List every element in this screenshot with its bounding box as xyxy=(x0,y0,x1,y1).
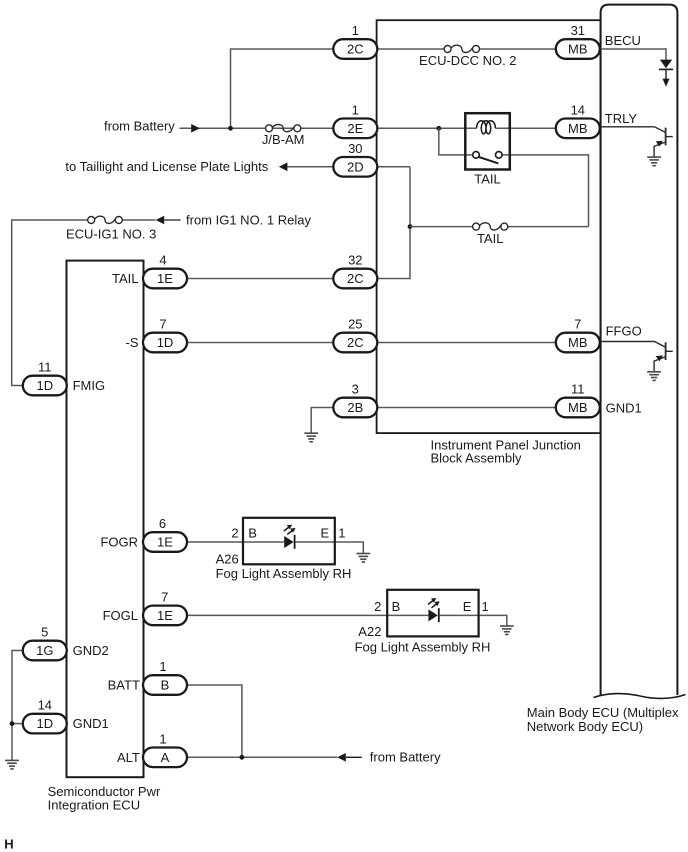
wire GND2 rail xyxy=(12,651,23,761)
svg-text:-S: -S xyxy=(126,335,139,350)
wire TAIL fuse row xyxy=(410,226,473,228)
svg-text:3: 3 xyxy=(352,382,359,397)
ground A22 ground xyxy=(500,626,514,635)
connector 2C pin 32 xyxy=(333,253,377,289)
svg-text:2: 2 xyxy=(374,599,381,614)
connector 1E pin 7 FOGL xyxy=(143,589,187,625)
Instrument Panel Junction Block Assembly box xyxy=(377,20,601,433)
svg-text:7: 7 xyxy=(159,317,166,332)
svg-text:H: H xyxy=(4,836,13,851)
wire 2B to MB11 xyxy=(377,407,556,409)
connector 2B pin 3 xyxy=(333,382,377,418)
svg-text:TRLY: TRLY xyxy=(605,111,638,126)
fuse TAIL xyxy=(473,223,508,230)
junction tail fuse branch xyxy=(408,224,413,229)
svg-text:B: B xyxy=(392,599,401,614)
svg-text:E: E xyxy=(321,525,330,540)
svg-text:FOGL: FOGL xyxy=(103,608,138,623)
svg-text:1: 1 xyxy=(482,599,489,614)
connector 1E pin 6 FOGR xyxy=(143,516,187,552)
svg-text:2D: 2D xyxy=(347,159,364,174)
svg-text:E: E xyxy=(463,599,472,614)
wire 2C25 to MB7 xyxy=(377,342,556,344)
relay coil xyxy=(477,121,496,134)
arrow from IG1 relay xyxy=(156,216,181,225)
fuse J/B-AM xyxy=(266,125,301,132)
ground ECU main ground xyxy=(5,760,19,769)
svg-text:1: 1 xyxy=(159,659,166,674)
connector 1G pin 5 GND2 xyxy=(23,625,67,661)
connector MB pin 14 xyxy=(556,102,600,138)
svg-text:FFGO: FFGO xyxy=(606,323,642,338)
svg-text:2C: 2C xyxy=(347,335,364,350)
svg-text:11: 11 xyxy=(571,382,585,397)
connector B pin 1 BATT xyxy=(143,659,187,695)
Main Body ECU box xyxy=(594,5,686,699)
LED A22 fog lamp xyxy=(428,598,440,622)
svg-text:Fog Light Assembly RH: Fog Light Assembly RH xyxy=(216,566,352,581)
diode BECU xyxy=(659,60,673,87)
wire A26 internal left xyxy=(243,541,284,543)
svg-text:to Taillight and License Plate: to Taillight and License Plate Lights xyxy=(65,159,268,174)
svg-text:Integration ECU: Integration ECU xyxy=(48,798,141,813)
connector 2C pin 25 xyxy=(333,317,377,353)
wire FOGR to A26 xyxy=(187,541,243,543)
fog light A22 box xyxy=(387,590,478,637)
svg-text:A26: A26 xyxy=(216,551,239,566)
ground 2B ground xyxy=(304,433,318,442)
svg-text:TAIL: TAIL xyxy=(474,172,501,187)
svg-text:7: 7 xyxy=(574,317,581,332)
svg-text:32: 32 xyxy=(348,253,362,268)
svg-text:ECU-IG1 NO. 3: ECU-IG1 NO. 3 xyxy=(66,226,156,241)
svg-text:B: B xyxy=(248,525,257,540)
svg-text:1: 1 xyxy=(338,525,345,540)
svg-text:from Battery: from Battery xyxy=(104,118,175,133)
wire branch up from battery node xyxy=(231,49,334,128)
svg-text:FOGR: FOGR xyxy=(100,535,138,550)
wire row1 to MB31 xyxy=(480,48,557,50)
connector MB pin 31 xyxy=(556,23,600,59)
svg-text:A22: A22 xyxy=(358,624,381,639)
wire A26 to ground xyxy=(335,542,364,553)
svg-text:FMIG: FMIG xyxy=(73,378,106,393)
svg-text:MB: MB xyxy=(568,121,588,136)
svg-text:TAIL: TAIL xyxy=(477,231,504,246)
svg-text:MB: MB xyxy=(568,400,588,415)
svg-text:1: 1 xyxy=(352,23,359,38)
Semiconductor Pwr Integration ECU box xyxy=(67,261,144,778)
connector 1D pin 7 -S xyxy=(143,317,187,353)
relay switch xyxy=(473,152,502,164)
svg-text:2E: 2E xyxy=(347,121,363,136)
wire relay switch feed xyxy=(439,128,473,155)
connector 2C pin 1 xyxy=(333,23,377,59)
fog light A26 box xyxy=(243,518,335,565)
svg-text:MB: MB xyxy=(568,335,588,350)
svg-text:TAIL: TAIL xyxy=(112,271,139,286)
svg-text:1D: 1D xyxy=(36,716,53,731)
svg-text:30: 30 xyxy=(348,141,362,156)
svg-text:B: B xyxy=(161,678,170,693)
junction relay branch xyxy=(436,126,441,131)
connector MB pin 11 xyxy=(556,382,600,418)
svg-text:2C: 2C xyxy=(347,271,364,286)
wire BATT to ALT junction xyxy=(187,685,242,757)
wire ALT row xyxy=(187,756,337,758)
arrow from Battery bottom xyxy=(337,753,362,762)
svg-text:BATT: BATT xyxy=(108,678,140,693)
svg-text:MB: MB xyxy=(568,42,588,57)
ground A26 ground xyxy=(356,554,370,563)
ground FFGO emitter ground xyxy=(647,372,661,381)
wire -S 1D to 2C25 xyxy=(187,342,334,344)
svg-text:2C: 2C xyxy=(347,42,364,57)
wire A22 to ground xyxy=(479,615,507,625)
svg-text:14: 14 xyxy=(571,102,585,117)
svg-text:Main Body ECU (Multiplex: Main Body ECU (Multiplex xyxy=(527,705,679,720)
connector 2E pin 1 xyxy=(333,102,377,138)
svg-text:2: 2 xyxy=(231,525,238,540)
wire A22 internal right xyxy=(440,614,479,616)
svg-text:A: A xyxy=(161,750,170,765)
svg-text:ALT: ALT xyxy=(117,750,140,765)
wire fuse to arrow xyxy=(122,219,155,221)
wire A26 internal right xyxy=(296,541,335,543)
svg-text:4: 4 xyxy=(159,253,166,268)
svg-text:Block Assembly: Block Assembly xyxy=(431,450,523,465)
wire GND1 stub xyxy=(12,723,23,725)
svg-text:1G: 1G xyxy=(36,643,53,658)
svg-text:J/B-AM: J/B-AM xyxy=(262,132,305,147)
wire TAIL 1E to 2C32 xyxy=(187,278,334,280)
svg-text:1E: 1E xyxy=(157,608,173,623)
svg-text:GND2: GND2 xyxy=(73,643,109,658)
svg-text:Network Body ECU): Network Body ECU) xyxy=(527,719,643,734)
svg-text:from Battery: from Battery xyxy=(370,750,441,765)
connector MB pin 7 xyxy=(556,317,600,353)
wire FOGL to A22 xyxy=(187,614,387,616)
wire 2D inside xyxy=(377,166,410,168)
svg-text:7: 7 xyxy=(161,589,168,604)
arrow from Battery xyxy=(191,124,200,133)
wire switch out right xyxy=(502,155,589,227)
junction ALT junction xyxy=(240,755,245,760)
transistor FFGO Q2 xyxy=(601,342,673,372)
wire from Battery to 2E xyxy=(180,127,334,129)
wire 2E into relay coil xyxy=(377,127,477,129)
svg-text:5: 5 xyxy=(41,625,48,640)
arrow to Taillight xyxy=(279,163,288,172)
svg-text:1D: 1D xyxy=(36,378,53,393)
svg-text:ECU-DCC NO. 2: ECU-DCC NO. 2 xyxy=(419,53,517,68)
wire 2B to ground xyxy=(311,408,333,433)
wire coil out to MB14 xyxy=(495,127,556,129)
wire left rail to fuse xyxy=(12,220,88,386)
svg-text:6: 6 xyxy=(159,516,166,531)
svg-text:1D: 1D xyxy=(157,335,174,350)
connector 2D pin 30 xyxy=(333,141,377,177)
svg-text:2B: 2B xyxy=(347,400,363,415)
connector 1E pin 4 TAIL xyxy=(143,253,187,289)
svg-text:1: 1 xyxy=(159,731,166,746)
svg-text:Fog Light Assembly RH: Fog Light Assembly RH xyxy=(355,640,491,655)
connector 1D pin 14 GND1 xyxy=(23,698,67,734)
svg-text:GND1: GND1 xyxy=(73,716,109,731)
svg-text:1: 1 xyxy=(352,102,359,117)
connector A pin 1 ALT xyxy=(143,731,187,767)
LED A26 fog lamp xyxy=(284,525,296,549)
svg-text:31: 31 xyxy=(571,23,585,38)
ground TRLY emitter ground xyxy=(647,157,661,166)
wire vertical 2D to 2C32 xyxy=(377,167,410,279)
transistor TRLY Q1 xyxy=(601,127,673,157)
fuse ECU-IG1 NO. 3 xyxy=(88,216,123,223)
wire A22 internal left xyxy=(387,614,428,616)
wire TAIL fuse to switch xyxy=(508,226,589,228)
svg-text:14: 14 xyxy=(38,698,52,713)
svg-text:11: 11 xyxy=(38,360,52,375)
wire 2D to taillights xyxy=(287,166,333,168)
relay TAIL box xyxy=(465,113,510,169)
connector 1D pin 11 FMIG xyxy=(23,360,67,396)
svg-text:1E: 1E xyxy=(157,271,173,286)
wire row1 inside junction block xyxy=(377,48,445,50)
junction ground rail junction xyxy=(10,721,15,726)
svg-text:25: 25 xyxy=(348,317,362,332)
svg-text:GND1: GND1 xyxy=(606,400,642,415)
svg-text:BECU: BECU xyxy=(605,33,641,48)
svg-text:from IG1 NO. 1 Relay: from IG1 NO. 1 Relay xyxy=(186,213,311,228)
fuse ECU-DCC NO. 2 xyxy=(444,45,479,52)
wire BECU to diode xyxy=(601,49,667,60)
junction battery branch xyxy=(228,126,233,131)
svg-text:1E: 1E xyxy=(157,535,173,550)
